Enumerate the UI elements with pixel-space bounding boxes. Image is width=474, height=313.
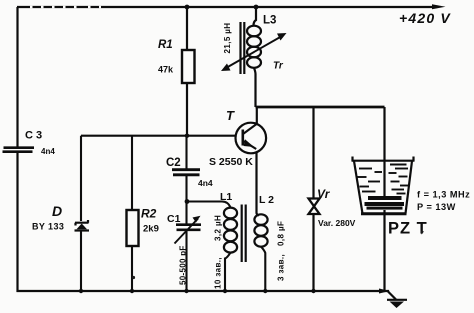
svg-text:Tr: Tr <box>273 61 284 72</box>
label Vr <box>317 187 331 201</box>
wire collector node horizontal <box>256 106 385 109</box>
varistor Vr <box>309 199 320 215</box>
wire R1 bottom to base node <box>186 83 188 136</box>
core transformer Tr <box>241 22 245 74</box>
svg-text:P = 13W: P = 13W <box>417 202 456 212</box>
wire left supply branch lower <box>16 152 18 292</box>
svg-text:T: T <box>226 108 235 123</box>
wire varistor branch upper <box>312 107 314 198</box>
wire emitter down to L2 <box>257 152 260 216</box>
svg-text:21,5 µH: 21,5 µH <box>223 23 232 54</box>
label L1 value 3,2 uH (rotated) <box>214 215 223 241</box>
wire diode branch upper <box>80 136 82 221</box>
node base/R1 junction <box>185 134 189 138</box>
label D value BY 133 <box>32 222 64 232</box>
label R1 <box>158 39 173 51</box>
svg-text:0,8 µF: 0,8 µF <box>277 221 286 246</box>
svg-text:C3: C3 <box>25 130 45 142</box>
wire L3 top feed <box>254 7 257 26</box>
label T <box>226 108 235 123</box>
wire C2 top feed <box>185 136 187 169</box>
svg-text:BY 133: BY 133 <box>32 222 64 232</box>
node varistor/ground rail <box>311 289 315 293</box>
label R2 <box>141 207 157 221</box>
wire R2 speck <box>132 231 424 280</box>
svg-text:4n4: 4n4 <box>198 178 213 188</box>
svg-text:D: D <box>52 203 62 219</box>
arrow variable inductor <box>221 33 287 71</box>
wire varistor branch lower <box>312 214 314 291</box>
wire diode branch lower <box>80 231 82 291</box>
label C1 value 50-500 pF (rotated) <box>179 245 188 285</box>
svg-text:f = 1,3 MHz: f = 1,3 MHz <box>417 190 470 200</box>
label Tr <box>273 61 284 72</box>
inductor L1 <box>224 208 237 291</box>
label D <box>52 203 62 219</box>
label C1 <box>167 213 181 225</box>
resistor R1 <box>182 50 195 83</box>
label L2 turns 3 zav (rotated) <box>277 254 286 281</box>
wire +420V top rail <box>17 6 437 8</box>
diode D (zener BY133) <box>75 220 90 231</box>
label L2 <box>259 194 274 206</box>
node rail/R1 junction <box>185 5 190 10</box>
node R2/ground rail <box>130 289 134 293</box>
svg-text:2k9: 2k9 <box>143 224 159 235</box>
svg-text:R1: R1 <box>158 39 173 51</box>
ground <box>387 292 407 309</box>
node C1/ground rail <box>184 289 188 293</box>
liquid level marks <box>358 165 409 194</box>
transistor T <box>236 123 267 154</box>
capacitor C1 (variable) <box>175 216 202 244</box>
svg-text:S 2550 K: S 2550 K <box>209 156 253 168</box>
label R2 value 2k9 <box>143 224 159 235</box>
inductor L2 <box>254 214 267 291</box>
svg-text:Var. 280V: Var. 280V <box>318 218 356 228</box>
capacitor C2 <box>172 170 200 175</box>
wire left supply branch upper <box>16 7 18 147</box>
label C2 value 4n4 <box>198 178 213 188</box>
svg-text:C2: C2 <box>166 157 181 169</box>
capacitor C3 <box>3 148 35 152</box>
node rail/L3 junction <box>254 5 259 10</box>
svg-text:L3: L3 <box>263 15 276 27</box>
label C3 value 4n4 <box>41 147 55 156</box>
label L2 value 0,8 uH (rotated) <box>277 221 286 246</box>
svg-text:L 2: L 2 <box>259 194 274 206</box>
label power P = 13W <box>417 202 456 212</box>
node L1/ground rail <box>223 289 227 293</box>
inductor L3 <box>247 26 261 107</box>
label Vr value Var. 280V <box>318 218 356 228</box>
label L1 <box>220 191 232 203</box>
svg-text:3,2 µH: 3,2 µH <box>214 215 223 241</box>
label +420 V <box>399 10 451 26</box>
wire C2 bottom to C1/L1 node <box>185 175 187 224</box>
wire collector up <box>256 107 258 124</box>
svg-text:R2: R2 <box>141 207 157 221</box>
beaker vessel <box>352 157 415 214</box>
label L3 <box>263 15 276 27</box>
svg-text:L1: L1 <box>220 191 232 203</box>
label R1 value 47k <box>158 65 174 75</box>
label L3 value 21,5 uH (rotated) <box>223 23 232 54</box>
node PZT/ground rail <box>379 289 390 294</box>
wire PZT to ground rail <box>383 210 385 291</box>
svg-text:Vr: Vr <box>317 187 331 201</box>
svg-text:PZ T: PZ T <box>388 220 428 238</box>
rail right arrowhead <box>432 4 446 9</box>
svg-text:47k: 47k <box>158 65 174 75</box>
wire C1 bottom <box>185 230 187 291</box>
wire bottom ground rail <box>17 290 390 292</box>
wire R1 top feed <box>186 7 188 50</box>
node diode/ground rail <box>79 289 83 293</box>
wire R2 branch lower <box>131 246 133 291</box>
label PZT <box>388 220 428 238</box>
node C1/L1 junction <box>185 199 190 204</box>
svg-text:C1: C1 <box>167 213 181 225</box>
svg-text:+420 V: +420 V <box>399 10 451 26</box>
resistor R2 <box>127 210 139 246</box>
svg-text:4n4: 4n4 <box>41 147 55 156</box>
wire base line <box>81 135 236 137</box>
label C2 <box>166 157 181 169</box>
label T value S 2550 K <box>209 156 253 168</box>
transducer PZT <box>365 196 405 210</box>
core L1/L2 transformer <box>242 205 246 263</box>
wire node to L1 top <box>187 202 231 208</box>
wire R2 branch upper <box>131 136 133 210</box>
svg-text:10 зав.,: 10 зав., <box>214 257 223 289</box>
node L2/ground rail <box>263 289 267 293</box>
wire PZT branch down <box>383 107 385 196</box>
svg-text:3 зав.,: 3 зав., <box>277 254 286 281</box>
label C3 <box>25 130 45 142</box>
label frequency f = 1,3 MHz <box>417 190 470 200</box>
label L1 turns 10 zav (rotated) <box>214 257 223 289</box>
